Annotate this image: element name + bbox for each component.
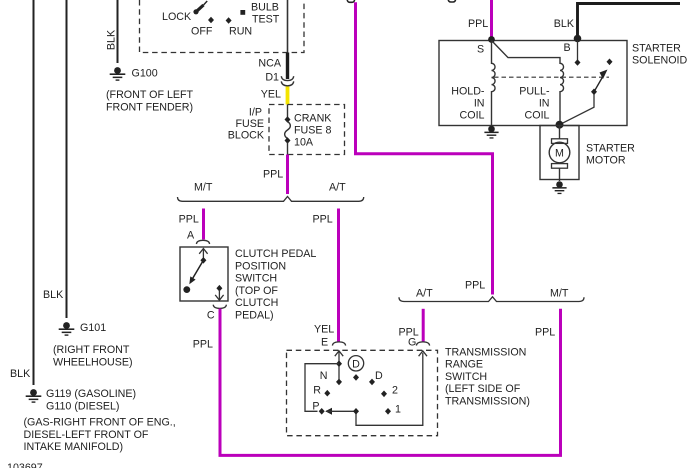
svg-text:R: R bbox=[313, 384, 321, 396]
svg-text:G: G bbox=[408, 337, 416, 349]
svg-text:M: M bbox=[555, 148, 564, 160]
svg-text:TEST: TEST bbox=[252, 14, 280, 26]
fuse block box bbox=[269, 105, 345, 155]
terminal A connector bbox=[196, 240, 209, 244]
range switch box (dashed) bbox=[287, 350, 438, 435]
svg-text:SWITCH: SWITCH bbox=[235, 273, 277, 285]
svg-text:A/T: A/T bbox=[416, 288, 433, 300]
svg-text:IN: IN bbox=[539, 98, 550, 110]
svg-text:YEL: YEL bbox=[261, 89, 281, 101]
pull-in coil feed bbox=[492, 41, 564, 125]
svg-text:E: E bbox=[321, 337, 328, 349]
contact N bbox=[336, 379, 342, 386]
svg-text:POSITION: POSITION bbox=[235, 260, 286, 272]
svg-text:CLUTCH: CLUTCH bbox=[235, 297, 278, 309]
svg-text:A: A bbox=[187, 230, 195, 242]
terminal G connector bbox=[416, 342, 429, 346]
terminal E connector bbox=[332, 342, 345, 346]
svg-text:BLK: BLK bbox=[43, 289, 64, 301]
terminal C connector bbox=[213, 305, 226, 309]
ground G100 bbox=[110, 67, 126, 81]
solenoid switch arm bbox=[560, 95, 595, 125]
contact 1 bbox=[385, 408, 391, 415]
svg-text:(FRONT OF LEFT: (FRONT OF LEFT bbox=[106, 89, 194, 101]
svg-text:LOCK: LOCK bbox=[162, 11, 192, 23]
svg-text:PPL: PPL bbox=[465, 280, 485, 292]
contact OFF bbox=[208, 17, 214, 24]
svg-text:G110 (DIESEL): G110 (DIESEL) bbox=[46, 400, 119, 412]
svg-text:COIL: COIL bbox=[460, 110, 485, 122]
svg-text:STARTER: STARTER bbox=[586, 143, 635, 155]
svg-text:(LEFT SIDE OF: (LEFT SIDE OF bbox=[445, 383, 521, 395]
wire BLK to B bbox=[578, 4, 681, 37]
ground G101 bbox=[59, 322, 75, 336]
svg-text:STARTER: STARTER bbox=[632, 43, 681, 55]
svg-text:P: P bbox=[312, 400, 319, 412]
svg-text:BLK: BLK bbox=[106, 29, 118, 50]
svg-text:IN: IN bbox=[474, 98, 485, 110]
wire YEL bbox=[286, 87, 290, 105]
wire BLK to G100 bbox=[117, 0, 119, 63]
starter motor box bbox=[540, 126, 579, 180]
contact BULB TEST bbox=[240, 10, 245, 15]
svg-text:BLOCK: BLOCK bbox=[228, 130, 265, 142]
svg-text:FUSE 8: FUSE 8 bbox=[294, 125, 331, 137]
svg-text:CRANK: CRANK bbox=[294, 113, 332, 125]
connector D1 bbox=[281, 76, 293, 80]
svg-text:DIESEL-LEFT FRONT OF: DIESEL-LEFT FRONT OF bbox=[24, 429, 149, 441]
wiper bus bbox=[305, 364, 339, 412]
solenoid box bbox=[439, 41, 627, 126]
svg-text:PPL: PPL bbox=[313, 214, 333, 226]
node B bbox=[574, 35, 582, 43]
svg-text:BULB: BULB bbox=[251, 2, 279, 14]
svg-text:TRANSMISSION: TRANSMISSION bbox=[445, 347, 526, 359]
svg-text:D: D bbox=[375, 370, 383, 382]
svg-text:CLUTCH PEDAL: CLUTCH PEDAL bbox=[235, 248, 316, 260]
svg-text:YEL: YEL bbox=[314, 324, 334, 336]
svg-text:G101: G101 bbox=[80, 322, 106, 334]
svg-text:I/P: I/P bbox=[249, 107, 262, 119]
terminal E arrow bbox=[335, 351, 343, 356]
wire PPL below fuse bbox=[286, 155, 289, 195]
ignition switch box bbox=[140, 0, 305, 53]
svg-text:TRANSMISSION): TRANSMISSION) bbox=[445, 395, 530, 407]
ground (starter motor) bbox=[552, 181, 566, 194]
ground (hold-in coil) bbox=[484, 126, 498, 139]
svg-text:PPL: PPL bbox=[535, 327, 555, 339]
contact RUN bbox=[226, 17, 232, 24]
svg-text:MOTOR: MOTOR bbox=[586, 155, 626, 167]
contact D bbox=[369, 379, 375, 386]
text fragment (cropped) bbox=[448, 0, 455, 2]
svg-text:OFF: OFF bbox=[191, 25, 213, 37]
svg-text:D: D bbox=[352, 359, 360, 371]
svg-text:D1: D1 bbox=[265, 72, 279, 84]
svg-text:(RIGHT FRONT: (RIGHT FRONT bbox=[53, 344, 130, 356]
brace bbox=[178, 197, 364, 202]
wire PPL long run to brace2 bbox=[356, 2, 493, 294]
svg-text:NCA: NCA bbox=[258, 58, 281, 70]
svg-text:G100: G100 bbox=[132, 68, 158, 80]
hold-in coil bbox=[492, 41, 496, 126]
svg-text:S: S bbox=[477, 44, 484, 56]
svg-text:N: N bbox=[320, 370, 328, 382]
svg-text:(TOP OF: (TOP OF bbox=[235, 285, 278, 297]
wire PPL to starter solenoid S bbox=[490, 0, 493, 38]
svg-text:PPL: PPL bbox=[468, 18, 488, 30]
ignition lever (LOCK position) bbox=[193, 9, 198, 14]
svg-text:PPL: PPL bbox=[193, 339, 213, 351]
svg-text:103697: 103697 bbox=[7, 462, 43, 468]
svg-text:WHEELHOUSE): WHEELHOUSE) bbox=[53, 356, 133, 368]
contact below B bbox=[577, 41, 579, 61]
svg-text:A/T: A/T bbox=[329, 182, 346, 194]
brace bbox=[399, 297, 584, 302]
wire PPL A/T drop to G bbox=[422, 309, 425, 342]
terminal A arrow bbox=[202, 249, 204, 258]
wire BLK to G119 bbox=[33, 0, 35, 385]
node starter junction bbox=[556, 121, 564, 129]
svg-text:BLK: BLK bbox=[554, 18, 575, 30]
wire PPL A/T drop (to E) bbox=[337, 209, 340, 343]
ground G119 bbox=[26, 389, 42, 403]
contact 2 bbox=[381, 391, 387, 398]
svg-text:RUN: RUN bbox=[229, 25, 252, 37]
fuse CRANK FUSE 8 10A bbox=[287, 105, 289, 118]
text fragment (cropped) bbox=[347, 0, 354, 2]
svg-text:INTAKE MANIFOLD): INTAKE MANIFOLD) bbox=[24, 441, 124, 453]
svg-text:PPL: PPL bbox=[179, 214, 199, 226]
svg-text:FRONT FENDER): FRONT FENDER) bbox=[106, 101, 193, 113]
svg-text:BLK: BLK bbox=[10, 368, 31, 380]
wire PPL M/T drop bbox=[202, 209, 205, 240]
svg-text:PPL: PPL bbox=[263, 169, 283, 181]
svg-text:SOLENOID: SOLENOID bbox=[632, 55, 688, 67]
svg-text:(GAS-RIGHT FRONT OF ENG.,: (GAS-RIGHT FRONT OF ENG., bbox=[24, 417, 176, 429]
svg-text:G119 (GASOLINE): G119 (GASOLINE) bbox=[46, 388, 136, 400]
svg-text:RANGE: RANGE bbox=[445, 359, 483, 371]
indicator D (circled) bbox=[348, 356, 363, 371]
contact P with wiper arrow bbox=[319, 408, 325, 415]
svg-text:HOLD-: HOLD- bbox=[451, 86, 485, 98]
svg-text:PEDAL): PEDAL) bbox=[235, 310, 274, 322]
svg-text:C: C bbox=[207, 310, 215, 322]
svg-text:1: 1 bbox=[395, 403, 401, 415]
svg-text:M/T: M/T bbox=[550, 288, 569, 300]
wire (thin, inside box) bbox=[287, 0, 289, 53]
svg-text:SWITCH: SWITCH bbox=[445, 371, 487, 383]
svg-text:COIL: COIL bbox=[525, 110, 550, 122]
linkage (dashed) bbox=[494, 76, 609, 78]
switch blade bbox=[191, 260, 204, 281]
terminal G arrow bbox=[419, 351, 427, 356]
svg-text:M/T: M/T bbox=[194, 182, 213, 194]
clutch switch box bbox=[180, 247, 228, 301]
svg-text:10A: 10A bbox=[294, 137, 314, 149]
wire NCA (thick) bbox=[286, 53, 289, 80]
wire BLK to G101 bbox=[66, 0, 68, 318]
motor M bbox=[559, 126, 561, 140]
node S bbox=[488, 36, 495, 43]
svg-text:2: 2 bbox=[392, 385, 398, 397]
svg-text:B: B bbox=[564, 42, 571, 54]
contact R bbox=[324, 390, 330, 397]
wire PPL from C to bottom run and up to brace2 M/T bbox=[220, 309, 561, 456]
contact C bbox=[216, 285, 222, 292]
svg-text:FUSE: FUSE bbox=[235, 118, 264, 130]
svg-text:PULL-: PULL- bbox=[519, 86, 550, 98]
